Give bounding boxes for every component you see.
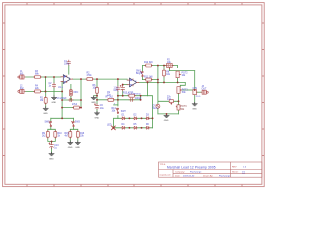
svg-text:P0.5: P0.5 xyxy=(196,96,201,98)
svg-text:SW2: SW2 xyxy=(45,121,51,123)
svg-text:U1.1: U1.1 xyxy=(58,87,64,89)
capacitor C6 polarized xyxy=(94,104,99,110)
ground under R15 xyxy=(68,141,73,145)
svg-text:TITLE:: TITLE: xyxy=(160,164,167,166)
junction dots x97 xyxy=(96,95,98,97)
wire bright row bottom xyxy=(143,79,158,81)
diode D4 xyxy=(121,126,125,129)
resistor R11 xyxy=(145,78,153,81)
wire tone box bottom xyxy=(158,113,179,115)
diode D3 xyxy=(146,117,150,120)
jack J2 input2 xyxy=(18,89,25,93)
jack J3 output xyxy=(201,90,208,94)
wire out row to pot3 link xyxy=(178,82,186,87)
wire right pair grounds xyxy=(70,138,78,141)
ground tone box xyxy=(164,114,169,118)
svg-text:5mm: 5mm xyxy=(153,108,158,110)
svg-text:C11: C11 xyxy=(167,99,172,101)
wire box to J3 xyxy=(197,91,202,93)
ground under C2 xyxy=(52,96,57,100)
jumper X mark xyxy=(112,126,116,130)
wire SW2 drop xyxy=(50,118,52,129)
svg-text:SW3: SW3 xyxy=(75,121,81,123)
wire row B xyxy=(97,99,141,101)
resistor R9 xyxy=(46,131,49,139)
svg-text:GND: GND xyxy=(164,120,169,122)
svg-text:GND: GND xyxy=(52,102,57,104)
wire pot1 bottom stub xyxy=(177,78,179,83)
frame outer border xyxy=(3,3,265,187)
wire NFC branch xyxy=(70,84,72,100)
svg-text:U1.2 NE5532: U1.2 NE5532 xyxy=(128,94,142,96)
pot POT4 output level xyxy=(193,90,197,95)
LED D7 tone xyxy=(156,104,160,108)
diode D2 xyxy=(133,117,137,120)
svg-text:R7 2k2: R7 2k2 xyxy=(106,96,114,98)
frame right ticks xyxy=(262,23,264,156)
svg-text:100n: 100n xyxy=(64,64,70,66)
wire bright row top xyxy=(143,65,167,67)
resistor R10 xyxy=(54,131,57,139)
trim pot P2 xyxy=(166,64,174,69)
wire input row2 xyxy=(26,90,62,92)
wire P2 wiper to output column xyxy=(169,70,194,72)
svg-text:REV:: REV: xyxy=(232,167,237,169)
wire left pair top tee xyxy=(48,129,56,131)
junction dots out row xyxy=(147,81,149,83)
ground under R1 xyxy=(43,107,48,111)
ground under R16 xyxy=(75,141,80,145)
svg-text:NFC: NFC xyxy=(74,92,79,94)
capacitor C9 xyxy=(116,86,119,91)
wire C2 branch vertical xyxy=(53,77,55,96)
wire feedback row R5 xyxy=(62,107,81,109)
frame inner border xyxy=(5,5,262,184)
wire feedback row C3 xyxy=(62,99,81,101)
wire right pair top tee xyxy=(70,129,78,131)
ground under C13 xyxy=(49,152,54,156)
wire op1 inverting rail xyxy=(61,81,63,118)
svg-text:Flachzange: Flachzange xyxy=(219,176,231,178)
junction dots bright rows xyxy=(157,65,159,67)
resistor R4 xyxy=(34,90,42,93)
trimmer TR1 tone xyxy=(169,100,173,105)
svg-text:2019-05-30: 2019-05-30 xyxy=(183,176,195,178)
wire SW3 drop xyxy=(73,118,75,129)
frame left ticks xyxy=(3,23,5,156)
wire output column vertical xyxy=(194,71,196,103)
resistor R16 xyxy=(76,131,79,139)
wire op1 output row xyxy=(73,78,128,80)
svg-text:Sheet:: Sheet: xyxy=(232,171,239,174)
ground under output column xyxy=(192,102,197,106)
wire left pair bottom tee xyxy=(48,138,56,143)
capacitor C10 polarized xyxy=(120,85,125,91)
junction dots op1 out xyxy=(80,78,82,80)
capacitor C3 xyxy=(68,98,73,101)
trimmer NFC xyxy=(70,89,73,96)
junction dot output column xyxy=(194,89,196,91)
diode D5 xyxy=(133,126,137,129)
wire P2 right to pot1 xyxy=(172,66,177,68)
diode D6 xyxy=(146,126,150,129)
switch SW4 clip xyxy=(116,108,119,113)
ground stub x97 xyxy=(91,96,96,100)
wire feedback right vertical xyxy=(80,79,82,108)
resistor R2 on output row xyxy=(86,78,94,81)
wire rowA-rowB link xyxy=(140,96,142,100)
wire pot3 bottom rail xyxy=(178,93,180,114)
frame top ticks xyxy=(27,3,242,5)
wire tone box top xyxy=(158,100,179,102)
resistor R5 xyxy=(73,106,81,109)
resistor R1 xyxy=(44,97,47,105)
svg-text:C10: C10 xyxy=(114,90,119,92)
junction dot C13 xyxy=(51,140,53,142)
svg-text:R11 1k8: R11 1k8 xyxy=(144,76,153,78)
wire op2out to rowA vertical xyxy=(147,82,149,95)
capacitor C1 supply xyxy=(67,60,70,65)
junction dot tone ground xyxy=(166,113,168,115)
wire row1-row2 vertical xyxy=(45,77,47,91)
resistor R13 xyxy=(128,94,136,97)
svg-text:GND: GND xyxy=(95,117,100,119)
diode D1 xyxy=(121,117,125,120)
switch SW1 bright xyxy=(141,71,144,76)
svg-text:1M: 1M xyxy=(40,100,43,102)
wire clipper row1 xyxy=(118,117,153,119)
resistor R7 xyxy=(107,98,115,101)
wire mid rail x157.9 xyxy=(157,66,159,102)
op-amp U1.2 xyxy=(127,78,139,87)
svg-text:easyeda.com: easyeda.com xyxy=(160,175,172,177)
wire op2 output row xyxy=(139,81,178,83)
svg-text:LED: LED xyxy=(107,124,112,126)
resistor R15 xyxy=(69,131,72,139)
svg-text:GND: GND xyxy=(91,102,96,104)
capacitor C8 xyxy=(129,98,134,101)
wire row A xyxy=(118,95,148,97)
wire pot3 wiper row xyxy=(182,89,195,91)
svg-text:Company:: Company: xyxy=(175,172,185,174)
resistor R6 xyxy=(96,87,99,95)
wire fan node horizontal xyxy=(51,117,74,119)
op-amp U1.1 xyxy=(61,75,73,84)
svg-text:GND: GND xyxy=(192,108,197,110)
pot POT2 gain xyxy=(176,71,181,78)
wire R1 to ground xyxy=(45,91,47,106)
wire tone box left xyxy=(157,101,159,114)
jack J1 input1 xyxy=(18,75,25,79)
svg-text:27k4: 27k4 xyxy=(72,104,78,106)
wire P2 wiper down xyxy=(168,68,170,71)
resistor R3 xyxy=(34,76,42,79)
junction dots clipper xyxy=(128,117,130,119)
wire op2 inverting row xyxy=(123,84,128,86)
wire plus stub xyxy=(114,104,118,106)
wire bright switch vertical xyxy=(142,66,144,80)
wire clipper spine xyxy=(148,96,153,128)
svg-text:R12 3k9: R12 3k9 xyxy=(144,62,153,64)
svg-text:Bright: Bright xyxy=(136,72,142,75)
wire clipper row2 xyxy=(114,127,153,129)
svg-text:GND: GND xyxy=(43,113,48,115)
svg-text:GND: GND xyxy=(68,147,73,149)
ground under C6 xyxy=(95,111,100,115)
svg-text:SW?: SW? xyxy=(121,111,127,113)
wire ground stub x97 xyxy=(94,95,97,97)
switch SW2 xyxy=(49,121,52,126)
wire R8 branch xyxy=(163,66,165,83)
junction dots row1/row2 xyxy=(45,76,47,78)
wire divider vertical x97 xyxy=(96,79,98,111)
junction dots rows A B xyxy=(117,95,119,97)
svg-text:470k: 470k xyxy=(87,75,93,77)
capacitor C13 polarized xyxy=(49,143,54,149)
resistor R12 xyxy=(145,64,153,67)
wire C10 branch xyxy=(122,85,124,96)
svg-text:GND: GND xyxy=(75,147,80,149)
svg-text:Date:: Date: xyxy=(175,175,181,178)
resistor R8 xyxy=(163,69,166,77)
switch SW3 xyxy=(72,121,75,126)
title block outline xyxy=(159,162,262,177)
svg-text:Flachzange: Flachzange xyxy=(190,172,202,174)
wire C13 to ground xyxy=(51,148,53,152)
svg-text:Marshall Lead 12 Preamp 3005: Marshall Lead 12 Preamp 3005 xyxy=(167,165,216,169)
capacitor C2 xyxy=(52,83,55,88)
svg-text:Drawn By:: Drawn By: xyxy=(203,175,213,178)
svg-text:OUT: OUT xyxy=(202,89,207,91)
wire vcc cap to op1 xyxy=(68,65,70,74)
frame bottom ticks xyxy=(27,184,242,186)
wire input row1 xyxy=(26,76,61,78)
junction dots feedback xyxy=(61,99,63,101)
pot POT1 volume xyxy=(177,87,182,94)
trimmer POT3 on tone box right rail xyxy=(176,105,180,110)
wire x118 rail xyxy=(117,79,119,118)
wire clipper left jog xyxy=(114,118,118,128)
svg-text:GND: GND xyxy=(49,158,54,160)
